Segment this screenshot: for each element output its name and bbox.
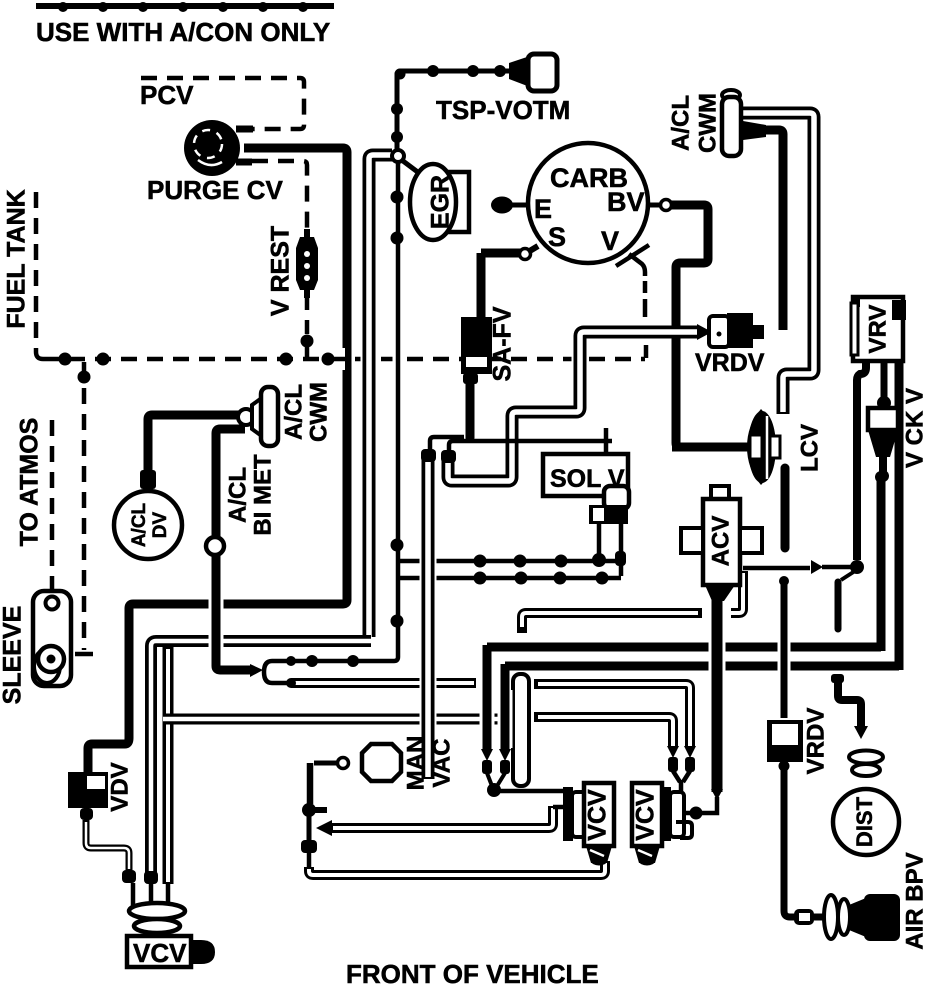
node bulge SA-FV tube top	[421, 449, 436, 462]
wire hollow tube R to right VCV	[536, 717, 673, 748]
wire thin bulge to SOL V cross	[449, 441, 612, 453]
component A/CL BI MET sensor ring	[206, 537, 224, 555]
wire VRV right line into bar B	[895, 311, 904, 670]
wire dashed main horizontal	[43, 348, 645, 370]
wire hollow tube EGR junction down left side (x369)	[369, 155, 392, 637]
wire Y merge into right VCV top	[673, 771, 690, 792]
CARB V plugged marker	[629, 254, 645, 276]
wire TSP-VOTM dotted line	[397, 71, 512, 150]
wire thick BV to LCV lower (casing over tube)	[669, 341, 684, 447]
svg-text:CWM: CWM	[694, 93, 721, 153]
tube tips onto right VCV	[684, 746, 696, 758]
svg-text:V: V	[601, 226, 619, 256]
SOL V cross tick	[604, 428, 609, 455]
wire dashed FUEL TANK vertical	[36, 192, 43, 359]
svg-text:BV: BV	[607, 187, 645, 217]
svg-text:VDV: VDV	[106, 762, 133, 811]
wire dot-line y578	[396, 576, 621, 581]
component VRV	[853, 297, 903, 361]
arrowhead into VRDV	[697, 324, 712, 340]
wire dot-line y561	[396, 559, 618, 564]
node bulge SOL V tube top	[441, 450, 456, 463]
wire bars A and B	[487, 643, 881, 652]
component LCV	[672, 443, 748, 452]
CARB BV port circle	[648, 203, 661, 208]
wire hollow tube A/CL CWM down right side to LCV	[741, 113, 814, 414]
wire hollow tube VRDV staircase to SOL V	[448, 332, 698, 481]
component PURGE CV	[184, 120, 240, 176]
component VDV	[68, 772, 108, 808]
node junction circle EGR/TSP	[392, 150, 404, 162]
component A/CL CWM horn (left)	[238, 409, 254, 425]
wire hollow tube horizontal y641 to left	[151, 641, 371, 874]
wire A/CL BI MET vertical (casing over purge + tube)	[209, 560, 224, 666]
svg-text:VRDV: VRDV	[695, 349, 765, 377]
svg-text:VCV: VCV	[632, 789, 660, 841]
svg-text:VRDV: VRDV	[802, 708, 829, 775]
wire dashed PCV box	[141, 78, 304, 129]
wire thin arrow line y567	[731, 571, 743, 613]
svg-text:ACV: ACV	[707, 516, 734, 567]
svg-text:A/CL: A/CL	[280, 384, 307, 440]
svg-text:SLEEVE: SLEEVE	[0, 606, 27, 705]
component A/CL CWM horn (top right)	[722, 90, 740, 100]
component VRDV (bottom)	[767, 720, 803, 762]
wire V CK V line into bar A	[877, 478, 886, 651]
component CARB	[528, 143, 648, 263]
svg-text:VAC: VAC	[428, 739, 455, 788]
wire LCV bottom port	[781, 468, 790, 548]
wire VRV bottom right port	[881, 360, 888, 398]
component SOL V valve body	[604, 486, 629, 509]
node CARB S circle	[520, 249, 531, 260]
wire SA-FV tube x428 down (casing over crossing runs)	[420, 462, 437, 780]
wire MAN VAC chain	[314, 761, 338, 766]
svg-text:VRV: VRV	[864, 305, 891, 354]
wire VRV left port line x857	[857, 360, 866, 560]
svg-text:PCV: PCV	[140, 80, 194, 110]
capsule sleeve element left of VCVs	[513, 674, 529, 786]
component VRDV (top)	[727, 313, 753, 348]
component A/CL DV circle	[114, 491, 182, 559]
wire hollow tube T2 branch down to VCV	[163, 647, 174, 884]
node dot on V REST line	[301, 335, 314, 348]
svg-text:S: S	[548, 222, 566, 252]
wire VDV to VCV staircase	[86, 820, 129, 871]
wire fork tube y683	[291, 678, 476, 688]
component VCV (bottom)	[129, 903, 185, 919]
component SA-FV	[461, 317, 492, 374]
component SLEEVE	[33, 591, 71, 686]
top border hatch line	[36, 3, 334, 9]
wire thick A/CL CWM to VRDV	[761, 130, 783, 330]
svg-text:V CK V: V CK V	[901, 388, 928, 468]
svg-text:A/CL: A/CL	[667, 95, 694, 151]
component SOL V box	[543, 454, 628, 496]
svg-text:VCV: VCV	[133, 938, 187, 968]
svg-text:FUEL TANK: FUEL TANK	[3, 189, 31, 328]
wire hollow tube y719 long run	[163, 714, 528, 725]
component V CK V	[868, 408, 898, 430]
component TSP-VOTM connector	[509, 56, 530, 87]
wire EGR stub	[403, 161, 419, 173]
component EGR	[447, 172, 469, 232]
wire dashed TO ATMOS to SLEEVE	[50, 420, 55, 592]
component ACV	[711, 486, 729, 500]
svg-text:FRONT OF VEHICLE: FRONT OF VEHICLE	[346, 959, 599, 988]
component fork connector	[264, 661, 288, 683]
svg-text:USE WITH A/CON ONLY: USE WITH A/CON ONLY	[36, 17, 330, 47]
svg-text:VCV: VCV	[584, 789, 612, 841]
wire dashed purge to V REST	[252, 161, 307, 232]
svg-text:V REST: V REST	[267, 226, 295, 316]
wire dashed V REST lower	[305, 294, 310, 334]
svg-text:A/CL: A/CL	[224, 467, 251, 523]
svg-text:CWM: CWM	[305, 382, 332, 442]
svg-text:EGR: EGR	[427, 175, 455, 229]
svg-text:AIR BPV: AIR BPV	[901, 852, 928, 949]
svg-text:E: E	[534, 194, 552, 224]
svg-text:MAN: MAN	[402, 736, 429, 791]
svg-text:A/CL: A/CL	[129, 502, 150, 547]
wire thick CARB BV upper	[671, 205, 708, 326]
svg-text:SA-FV: SA-FV	[489, 306, 517, 381]
wire dot-line x397 vertical from EGR junction with fork corner	[290, 160, 398, 661]
node bulge tube T1 end	[144, 871, 158, 884]
svg-text:TO ATMOS: TO ATMOS	[16, 418, 44, 547]
component MAN VAC hexagon	[362, 744, 401, 781]
wire bar A riser with casing over y719	[480, 680, 495, 748]
svg-text:TSP-VOTM: TSP-VOTM	[436, 95, 570, 125]
component AIR BPV	[824, 895, 838, 939]
wire dashed TO ATMOS branch	[82, 362, 87, 650]
wire hollow tube Q to right VCV	[536, 684, 690, 748]
svg-text:DV: DV	[150, 511, 171, 538]
svg-text:DIST: DIST	[852, 796, 877, 847]
wire SOL valve port risers	[597, 524, 602, 556]
component VCV (bottom-center right)	[632, 783, 662, 846]
wire hollow tube y612 under ACV	[522, 613, 702, 633]
CARB E port	[491, 197, 513, 214]
svg-text:BI MET: BI MET	[249, 454, 276, 536]
wire arrow tube y828 to left VCV lower port	[316, 820, 332, 836]
wire A/CL DV to horn	[148, 415, 240, 492]
svg-text:PURGE CV: PURGE CV	[147, 175, 283, 205]
wire hollow tube y875 to left VCV cone	[309, 861, 605, 875]
component VCV (bottom-center left)	[563, 787, 573, 841]
wire thin SA-FV jog to tube	[430, 437, 464, 450]
wire purge CV main thick line	[88, 148, 347, 774]
svg-text:LCV: LCV	[796, 424, 823, 472]
component V REST	[296, 237, 318, 290]
wire VRDV bottom line (casing over bars)	[778, 598, 791, 705]
component DIST	[831, 674, 844, 683]
node dots on main dashed line	[59, 353, 72, 366]
wire ACV stem (casing over bars)	[709, 604, 726, 790]
